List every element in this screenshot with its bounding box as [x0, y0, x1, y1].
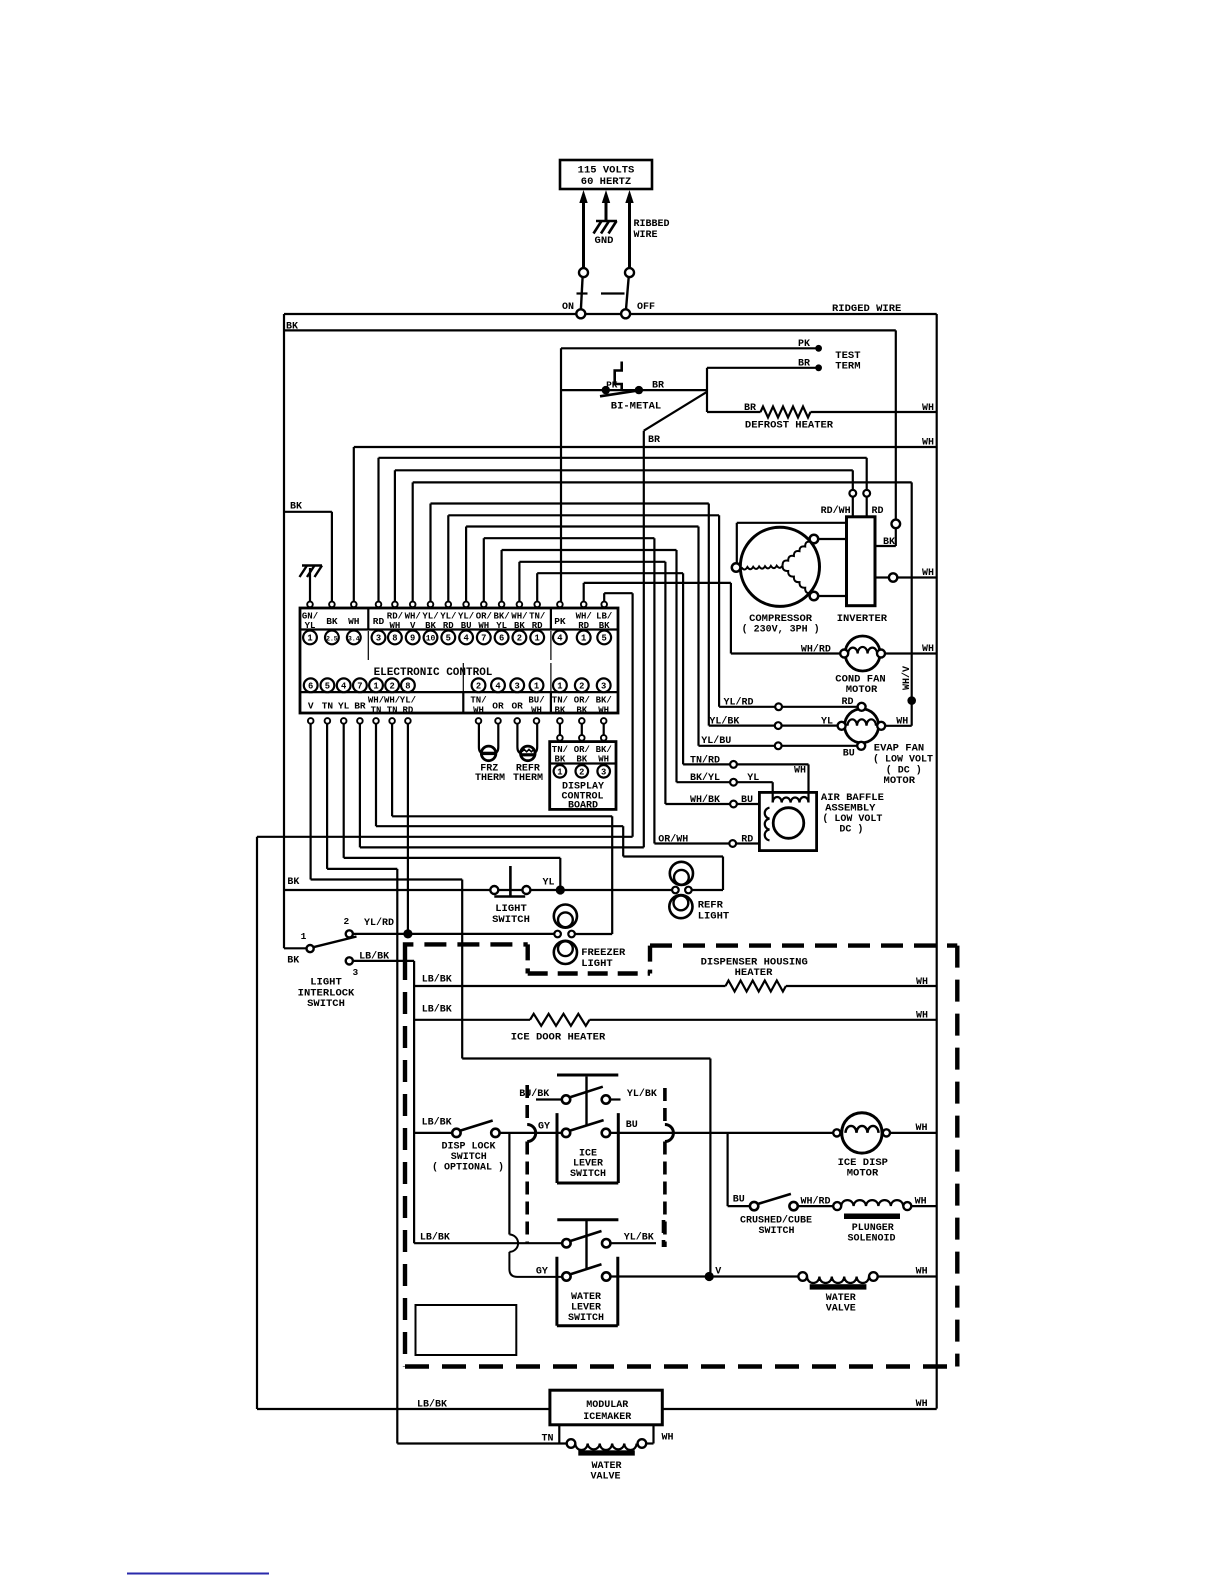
svg-text:OR/: OR/ [574, 745, 590, 755]
svg-text:LIGHT: LIGHT [581, 958, 613, 970]
svg-text:BK: BK [287, 877, 299, 888]
air baffle assembly [759, 792, 884, 851]
svg-text:1: 1 [535, 633, 540, 643]
svg-text:GND: GND [595, 235, 614, 247]
svg-text:WH: WH [896, 717, 908, 728]
dispenser dashed enclosure [405, 944, 957, 1366]
svg-text:DC ): DC ) [839, 824, 863, 836]
svg-text:SWITCH: SWITCH [570, 1169, 606, 1180]
svg-text:4: 4 [557, 633, 563, 643]
svg-text:BR: BR [798, 359, 810, 370]
svg-text:SOLENOID: SOLENOID [847, 1234, 895, 1245]
svg-text:2: 2 [579, 681, 584, 691]
svg-text:2.5: 2.5 [326, 635, 338, 642]
svg-text:LB/: LB/ [596, 611, 612, 621]
svg-text:( LOW VOLT: ( LOW VOLT [822, 813, 882, 825]
svg-text:WH/: WH/ [405, 611, 421, 621]
pin control bottom WH//TN terminal 2 [384, 678, 400, 723]
wire BK second rail to inverter [284, 330, 896, 519]
wire BK to light switch [284, 877, 490, 890]
svg-text:WH: WH [922, 403, 934, 414]
wire compressor phase leads to inverter [818, 539, 847, 596]
wire border to interlock common [284, 948, 307, 966]
wire TN/RD to air baffle [683, 755, 808, 803]
pin control top BK//YL terminal 6 [493, 602, 509, 645]
svg-text:2: 2 [579, 767, 584, 777]
wire BK control to left border [284, 502, 332, 602]
svg-text:8: 8 [392, 633, 397, 643]
svg-text:BR: BR [652, 381, 664, 392]
svg-text:3: 3 [353, 967, 359, 978]
svg-text:BK: BK [576, 705, 587, 715]
svg-text:10: 10 [426, 634, 436, 643]
wire left border BK rail [284, 314, 298, 948]
pin control bottom BR terminal 7 [353, 678, 367, 723]
svg-text:RIDGED WIRE: RIDGED WIRE [832, 303, 901, 315]
svg-text:RD/: RD/ [387, 611, 403, 621]
svg-text:1: 1 [301, 931, 307, 942]
pin control top WH//BK terminal 2 [511, 602, 527, 645]
svg-text:WH: WH [348, 616, 360, 627]
pin RD/WH inverter input [821, 490, 857, 517]
svg-text:6: 6 [499, 633, 504, 643]
svg-text:TN/RD: TN/RD [690, 755, 720, 767]
svg-text:( 230V, 3PH ): ( 230V, 3PH ) [742, 623, 820, 635]
svg-text:GN/: GN/ [302, 611, 318, 621]
svg-text:BR: BR [648, 435, 660, 446]
svg-text:WH: WH [922, 644, 934, 655]
wire WH from control to right border [354, 438, 937, 602]
svg-text:VALVE: VALVE [590, 1471, 620, 1482]
pin control bottom WH//TN terminal 1 [368, 678, 384, 723]
svg-text:2: 2 [343, 916, 349, 927]
svg-text:1: 1 [307, 633, 312, 643]
ground symbol GND [594, 221, 618, 247]
wire V from control to water lever circuit [311, 724, 711, 1277]
svg-text:WH: WH [922, 438, 934, 449]
pin control top RD//WH terminal 8 [387, 602, 403, 645]
svg-text:BK: BK [576, 755, 587, 765]
svg-text:YL/RD: YL/RD [364, 917, 394, 929]
svg-text:YL: YL [747, 773, 759, 784]
wire OR/WH control to air baffle [484, 538, 655, 843]
svg-text:PK: PK [798, 339, 810, 350]
svg-text:PLUNGER: PLUNGER [852, 1223, 894, 1234]
svg-text:LEVER: LEVER [571, 1303, 601, 1314]
pin control bottom V terminal 6 [304, 678, 318, 723]
pin BK inverter [875, 520, 900, 548]
svg-text:WH/V: WH/V [901, 666, 913, 690]
light interlock switch [298, 916, 394, 1010]
pin RD inverter input [863, 490, 883, 517]
svg-text:4: 4 [495, 681, 501, 691]
pin control top RD terminal 3 [372, 602, 386, 645]
svg-text:CRUSHED/CUBE: CRUSHED/CUBE [740, 1215, 812, 1227]
display board label [561, 782, 604, 812]
svg-text:TN/: TN/ [470, 696, 486, 706]
svg-text:YL/BK: YL/BK [709, 715, 739, 727]
pin control bottom OR terminal 3 [510, 678, 524, 723]
pin display board terminal 3 [597, 765, 610, 778]
svg-text:1: 1 [557, 681, 562, 691]
svg-text:DISP LOCK: DISP LOCK [441, 1141, 495, 1152]
svg-text:3: 3 [376, 633, 381, 643]
svg-text:RD: RD [872, 506, 884, 517]
inverter [837, 517, 888, 625]
svg-text:OR/: OR/ [574, 696, 590, 706]
svg-text:WH: WH [598, 705, 609, 715]
wire YL/BK to evap fan YL [709, 715, 838, 729]
wire LB/BK control down to icemaker [257, 593, 633, 1410]
svg-text:WATER: WATER [571, 1292, 601, 1303]
lamp freezer light [554, 905, 626, 970]
svg-text:VALVE: VALVE [826, 1303, 856, 1314]
svg-text:RD: RD [741, 835, 753, 846]
pin control top PK terminal 4 [553, 602, 567, 645]
svg-text:OR/WH: OR/WH [658, 834, 688, 846]
legend box (empty) [416, 1305, 517, 1355]
svg-text:RD: RD [402, 705, 413, 715]
svg-text:115 VOLTS: 115 VOLTS [578, 165, 635, 177]
svg-text:ON: ON [562, 302, 574, 313]
svg-text:4: 4 [341, 681, 347, 691]
svg-text:WIRE: WIRE [634, 230, 658, 241]
svg-text:BK/YL: BK/YL [690, 772, 720, 784]
svg-text:2: 2 [389, 681, 394, 691]
motor cond fan [731, 636, 937, 696]
switch disp lock (optional) [414, 1117, 504, 1174]
svg-text:DEFROST HEATER: DEFROST HEATER [745, 420, 834, 432]
switch OFF pole [601, 268, 655, 318]
svg-text:1: 1 [373, 681, 378, 691]
svg-text:TERM: TERM [835, 360, 860, 372]
switch crushed/cube [740, 1194, 833, 1237]
svg-text:SWITCH: SWITCH [568, 1313, 604, 1324]
svg-text:SWITCH: SWITCH [451, 1152, 487, 1163]
svg-text:EVAP FAN: EVAP FAN [874, 743, 924, 755]
wire neutral ribbed lead with arrow [625, 190, 669, 268]
svg-text:60 HERTZ: 60 HERTZ [581, 176, 631, 188]
wire WH/V vertical label and junction [885, 666, 916, 726]
pin control top YL//BK terminal 10 [422, 602, 438, 645]
svg-text:ICE DOOR HEATER: ICE DOOR HEATER [511, 1032, 606, 1044]
ground lead with arrow [602, 190, 610, 220]
svg-text:BK: BK [290, 502, 302, 513]
svg-text:TN: TN [541, 1434, 553, 1445]
svg-text:ELECTRONIC CONTROL: ELECTRONIC CONTROL [374, 667, 493, 679]
svg-text:YL/: YL/ [422, 611, 438, 621]
svg-text:BK/: BK/ [596, 745, 612, 755]
svg-text:BU: BU [733, 1194, 745, 1205]
svg-text:YL/: YL/ [440, 611, 456, 621]
motor ice dispenser [833, 1113, 937, 1180]
svg-text:LB/BK: LB/BK [420, 1231, 450, 1243]
svg-text:BU: BU [843, 749, 855, 760]
svg-text:5: 5 [602, 633, 607, 643]
resistor defrost heater [707, 403, 937, 432]
svg-text:RD/WH: RD/WH [821, 505, 851, 517]
svg-text:2: 2 [517, 633, 522, 643]
svg-text:V: V [715, 1266, 721, 1277]
svg-text:PK: PK [554, 616, 566, 627]
display control board [550, 724, 616, 810]
pin control top YL//BU terminal 4 [458, 602, 474, 645]
svg-text:WH: WH [473, 705, 484, 715]
ground chassis symbol at control [300, 566, 323, 602]
svg-text:THERM: THERM [513, 773, 543, 784]
wire BK/YL to air baffle [677, 772, 773, 803]
svg-text:BK/: BK/ [493, 611, 509, 621]
resistor dispenser housing heater [414, 957, 937, 992]
thermistor REFR THERM [513, 724, 543, 784]
wire YL from control to lights junction [344, 724, 561, 889]
pin control bottom OR//BK terminal 2 [574, 678, 590, 723]
svg-text:MOTOR: MOTOR [847, 1168, 879, 1180]
test terminal label [835, 350, 860, 373]
svg-text:V: V [308, 701, 314, 712]
svg-text:PK: PK [606, 380, 618, 391]
svg-text:YL: YL [338, 701, 350, 712]
svg-text:1: 1 [557, 767, 562, 777]
pin control bottom TN//WH terminal 2 [470, 678, 486, 723]
svg-text:BOARD: BOARD [568, 801, 598, 812]
wire YL/BU control to evap fan [466, 527, 698, 746]
svg-text:YL/BU: YL/BU [701, 735, 731, 747]
wire BU ice lever to motor [610, 1132, 833, 1134]
svg-text:WATER: WATER [826, 1293, 856, 1304]
wire LB/BK to water lever [414, 1231, 562, 1243]
svg-text:WH/: WH/ [384, 696, 400, 706]
wire LB/BK interlock-3 to dispenser [353, 961, 414, 1243]
svg-text:MODULAR: MODULAR [586, 1400, 628, 1411]
svg-text:TN: TN [322, 701, 334, 712]
wire WH/V control to evap fan [413, 482, 912, 725]
svg-text:YL/: YL/ [458, 611, 474, 621]
inner dashed boundary ice/water lever [527, 1085, 673, 1247]
svg-text:RD: RD [373, 616, 385, 627]
svg-text:WH: WH [598, 755, 609, 765]
wire compressor top lead [737, 523, 847, 564]
svg-text:BK: BK [554, 705, 565, 715]
svg-text:LB/BK: LB/BK [417, 1399, 447, 1411]
svg-text:HEATER: HEATER [735, 967, 774, 979]
svg-text:LB/BK: LB/BK [422, 1117, 452, 1129]
electronic control board [300, 608, 618, 713]
wire TN from control to icemaker valve [327, 724, 567, 1444]
svg-text:5: 5 [446, 633, 451, 643]
modular icemaker [550, 1390, 662, 1425]
svg-text:GY: GY [536, 1266, 548, 1277]
valve water valve (dispenser) [798, 1267, 936, 1315]
wire GY ice lever feed [500, 1122, 562, 1133]
svg-text:1: 1 [534, 681, 539, 691]
lamp refr light [669, 862, 729, 922]
svg-text:YL/RD: YL/RD [724, 697, 754, 709]
svg-text:BU/BK: BU/BK [519, 1088, 549, 1100]
pin control top WH terminal 3.4 [347, 602, 361, 645]
pin control top TN//RD terminal 1 [529, 602, 545, 645]
svg-text:WH: WH [922, 568, 934, 579]
node V junction [610, 1266, 798, 1281]
svg-text:( LOW VOLT: ( LOW VOLT [873, 754, 933, 766]
decorative blue underline [127, 1573, 269, 1575]
svg-text:BU: BU [741, 795, 753, 806]
svg-text:LIGHT: LIGHT [698, 910, 730, 922]
svg-text:ASSEMBLY: ASSEMBLY [825, 803, 876, 815]
svg-text:3: 3 [515, 681, 520, 691]
svg-text:1: 1 [581, 633, 586, 643]
node YL junction [530, 885, 671, 894]
wire PK to test terminal [561, 339, 822, 352]
wire L1 hot lead with arrow [579, 190, 587, 268]
wire BR diagonal to control [644, 392, 707, 848]
svg-text:ICE: ICE [579, 1148, 597, 1159]
wire RD control to inverter [379, 458, 867, 602]
svg-text:WH: WH [915, 1123, 927, 1134]
svg-text:4: 4 [463, 633, 469, 643]
svg-text:WH: WH [916, 977, 928, 988]
pin control top WH//RD terminal 1 [576, 602, 592, 645]
svg-text:OR: OR [511, 701, 523, 712]
svg-text:OR: OR [492, 701, 504, 712]
svg-text:3: 3 [601, 681, 606, 691]
svg-text:MOTOR: MOTOR [846, 684, 878, 696]
svg-text:2: 2 [476, 681, 481, 691]
svg-text:BK: BK [554, 755, 565, 765]
svg-text:YL: YL [542, 878, 554, 889]
pin control bottom YL terminal 4 [337, 678, 351, 723]
svg-text:WH/BK: WH/BK [690, 794, 720, 806]
wire main top rail RIDGED WIRE (right border) [284, 303, 937, 1409]
wire TN/RD control to air baffle [537, 573, 683, 764]
wire BK/YL control to air baffle [502, 550, 677, 782]
svg-text:SWITCH: SWITCH [758, 1226, 794, 1237]
svg-text:BK: BK [326, 616, 338, 627]
svg-text:TN/: TN/ [552, 745, 568, 755]
svg-text:BK/: BK/ [596, 696, 612, 706]
wire BR to test terminal [707, 359, 822, 372]
svg-text:COMPRESSOR: COMPRESSOR [749, 613, 813, 625]
svg-text:BU/: BU/ [528, 696, 544, 706]
wire WH/BK to air baffle BU [665, 794, 759, 807]
pin control top LB//BK terminal 5 [596, 602, 612, 645]
svg-text:TN: TN [387, 705, 398, 715]
svg-text:LB/BK: LB/BK [422, 973, 452, 985]
pin display board terminal 1 [554, 765, 567, 778]
svg-text:BR: BR [354, 701, 366, 712]
pin control bottom OR terminal 4 [491, 678, 505, 723]
wire YL/RD to evap fan RD [719, 697, 858, 711]
switch water lever YL/BK contact [557, 1220, 663, 1248]
wire WH icemaker to right border [662, 1399, 936, 1410]
svg-text:WH: WH [662, 1433, 674, 1444]
pin display board terminal 2 [576, 765, 589, 778]
svg-text:WH/RD: WH/RD [801, 644, 831, 656]
svg-text:THERM: THERM [475, 773, 505, 784]
pin WH inverter output [875, 568, 937, 582]
svg-text:SWITCH: SWITCH [492, 914, 530, 926]
pin control top YL//RD terminal 5 [440, 602, 456, 645]
wire YL/BU to evap fan BU [699, 735, 858, 749]
svg-text:WH: WH [531, 705, 542, 715]
pin control bottom YL//RD terminal 8 [400, 678, 416, 723]
svg-text:MOTOR: MOTOR [884, 775, 916, 787]
svg-text:6: 6 [308, 681, 313, 691]
compressor motor (230V 3PH) [732, 527, 820, 635]
wire YL/RD from control [403, 724, 412, 939]
motor evap fan [821, 697, 933, 787]
svg-text:5: 5 [325, 681, 330, 691]
pin control bottom BU//WH terminal 1 [528, 678, 544, 723]
pin control bottom TN//BK terminal 1 [552, 678, 568, 723]
svg-text:SWITCH: SWITCH [307, 998, 345, 1010]
svg-text:YL/BK: YL/BK [627, 1088, 657, 1100]
wire WH/BK control to air baffle [519, 562, 665, 804]
node BR junction vertical [706, 368, 708, 412]
svg-text:3.4: 3.4 [348, 635, 360, 642]
svg-text:WH: WH [794, 766, 806, 777]
svg-text:TN/: TN/ [529, 611, 545, 621]
svg-text:BI-METAL: BI-METAL [611, 401, 661, 413]
svg-text:9: 9 [410, 633, 415, 643]
wire PK vertical from control to bi-metal [560, 348, 562, 602]
pin control bottom BK//WH terminal 3 [596, 678, 612, 723]
wire WH/TN to freezer light [392, 724, 612, 935]
switch ON pole [562, 268, 588, 318]
wire interlock-2 to freezer light [353, 933, 554, 935]
svg-text:OR/: OR/ [476, 611, 492, 621]
svg-text:OFF: OFF [637, 302, 655, 313]
svg-text:8: 8 [405, 681, 410, 691]
svg-text:WH: WH [916, 1010, 928, 1021]
wire disp lock branch to water lever (with hop) [509, 1133, 562, 1277]
wire WH/RD control to cond fan [584, 583, 731, 654]
wire OR/WH to air baffle RD [654, 834, 759, 847]
solenoid plunger [833, 1197, 937, 1245]
svg-text:BU: BU [626, 1120, 638, 1131]
svg-text:7: 7 [357, 681, 362, 691]
switch ice lever switch (GY/BU) [557, 1077, 638, 1183]
svg-text:TN: TN [371, 705, 382, 715]
switch water lever switch (GY) [536, 1221, 618, 1326]
svg-text:WH: WH [915, 1197, 927, 1208]
svg-text:BK: BK [287, 956, 299, 967]
switch ice lever BU/BK contact [519, 1075, 657, 1104]
svg-text:YL/: YL/ [400, 696, 416, 706]
svg-text:WH/: WH/ [576, 611, 592, 621]
pin control top WH//V terminal 9 [405, 602, 421, 645]
pin control top GN//YL terminal 1 [302, 602, 318, 645]
svg-text:YL/BK: YL/BK [624, 1232, 654, 1244]
wire BU branch to crushed/cube switch [728, 1133, 750, 1206]
wire BR from control to bi-metal [360, 724, 644, 848]
svg-text:BR: BR [744, 403, 756, 414]
svg-text:RIBBED: RIBBED [634, 219, 670, 230]
wire YL/BK control to evap fan [431, 504, 709, 726]
svg-text:TN/: TN/ [552, 696, 568, 706]
power source box 115 VOLTS 60 HERTZ [560, 160, 652, 189]
svg-text:INVERTER: INVERTER [837, 613, 888, 625]
svg-text:WH/: WH/ [368, 696, 384, 706]
svg-text:WH/RD: WH/RD [801, 1196, 831, 1208]
pin control top OR//WH terminal 7 [476, 602, 492, 645]
pin control bottom TN terminal 5 [321, 678, 335, 723]
wire RD/WH control to inverter [395, 470, 853, 602]
svg-text:BK: BK [883, 537, 895, 548]
svg-text:ICEMAKER: ICEMAKER [583, 1412, 631, 1423]
svg-text:WH/: WH/ [511, 611, 527, 621]
pin control top BK terminal 2.5 [325, 602, 339, 645]
